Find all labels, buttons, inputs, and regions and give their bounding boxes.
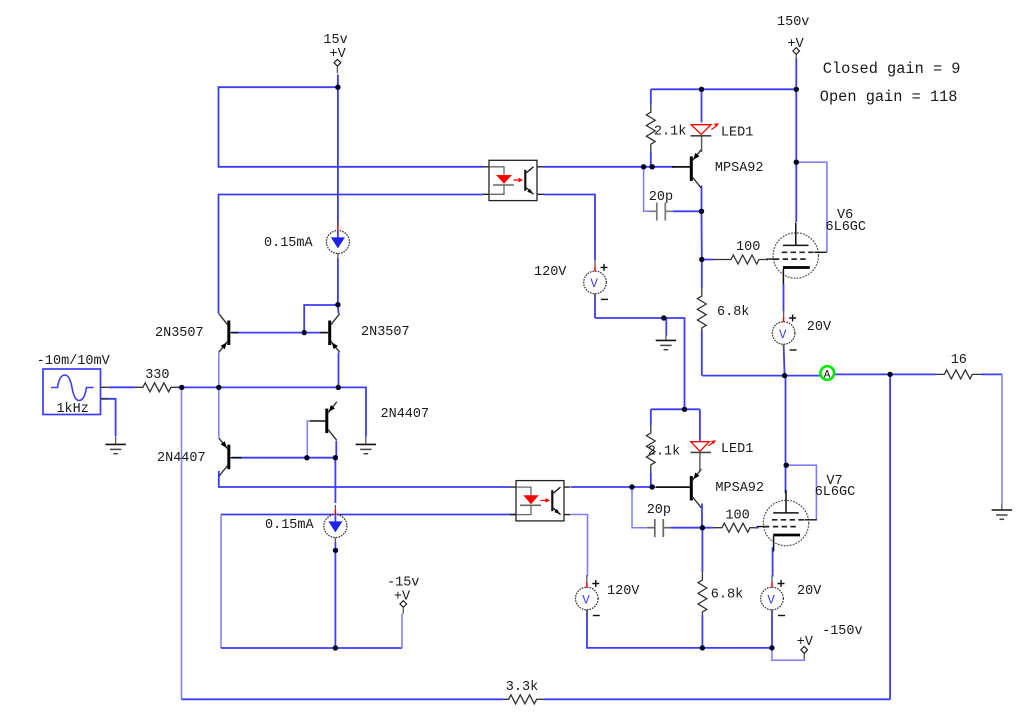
svg-text:+V: +V — [330, 47, 347, 62]
svg-text:100: 100 — [725, 509, 749, 524]
wire -15v left side — [220, 515, 222, 649]
wire Q1 emitter to feedback rail — [218, 353, 220, 388]
resistor R6.8k upper — [697, 289, 749, 331]
svg-text:+V: +V — [394, 590, 411, 605]
wire -150v supply hook — [772, 648, 804, 660]
resistor R330 — [135, 368, 178, 392]
wire Q4 emitter from rail — [218, 387, 220, 437]
svg-text:+V: +V — [788, 37, 805, 52]
wire Q3 collector down — [335, 441, 337, 458]
wire -15v rect — [221, 514, 516, 516]
capacitor C1 20p upper — [649, 190, 673, 220]
resistor R3.3k feedback — [503, 680, 543, 704]
voltmeter M4 20V lower — [761, 575, 785, 617]
svg-text:+V: +V — [797, 635, 814, 650]
wire R16 ground drop — [1001, 374, 1003, 505]
wire bottom feedback rail left — [182, 698, 504, 700]
resistor R100 lower — [713, 509, 755, 533]
svg-text:15v: 15v — [323, 33, 347, 48]
svg-text:LED1: LED1 — [721, 125, 753, 140]
optocoupler U2 lower — [510, 481, 571, 521]
svg-text:120V: 120V — [607, 584, 640, 599]
wire R2.1k upper leads — [650, 89, 652, 104]
svg-text:2.1k: 2.1k — [648, 444, 680, 459]
wire C2 branch — [632, 487, 647, 528]
svg-text:6L6GC: 6L6GC — [826, 220, 867, 235]
svg-text:-10m/10mV: -10m/10mV — [37, 354, 111, 369]
voltage supply +V 15v — [323, 33, 347, 73]
current source I1 0.15mA upper — [326, 221, 349, 259]
wire C2 to junction — [671, 527, 702, 529]
voltmeter M3 120V lower — [576, 575, 600, 617]
transistor Q5 MPSA92 upper — [691, 150, 701, 189]
wire opto U1 collector to base rail — [544, 166, 675, 168]
LED D2 lower LED1 — [691, 440, 754, 457]
voltage supply +V 150v — [777, 15, 809, 59]
wire M2 to node A rail — [784, 345, 785, 376]
resistor R2.1k upper — [646, 105, 686, 153]
transistor Q4 2N4407 lower-left — [219, 438, 229, 477]
ground (mid 120V meter) — [656, 318, 676, 350]
transistor Q2 base stub — [320, 332, 328, 334]
wire source ground lead — [101, 399, 116, 437]
wire V7 cathode to M4 — [772, 547, 774, 576]
wire bottom feedback rail right — [543, 698, 890, 700]
svg-text:20p: 20p — [647, 503, 671, 518]
voltage supply +V -150v — [797, 624, 863, 659]
wire 150v down to V6 plate — [795, 58, 797, 222]
wire LED1 to Q5 emitter — [701, 137, 703, 153]
transistor Q2 2N3507 right — [330, 314, 340, 353]
wire opto U1 emitter to M1 — [544, 195, 596, 261]
capacitor C2 20p lower — [647, 503, 671, 537]
wire A rail to V7 plate — [785, 376, 787, 494]
wire Q2 emitter down — [338, 353, 340, 388]
node A badge — [821, 366, 835, 381]
wire -15v bottom rail — [221, 647, 402, 649]
svg-text:V: V — [590, 277, 598, 291]
wire R2.1k lower leads — [650, 409, 652, 425]
wire junction to R100 lower — [702, 527, 713, 529]
svg-text:V: V — [779, 328, 787, 342]
svg-text:-150v: -150v — [822, 624, 863, 639]
svg-text:2N3507: 2N3507 — [155, 326, 204, 341]
ground (input source) — [105, 437, 125, 454]
voltage supply +V -15v — [387, 576, 419, 614]
wire Q4 collector to opto U2 anode — [219, 471, 510, 487]
LED D1 upper LED1 — [691, 123, 754, 140]
wire M4 bottom — [771, 610, 773, 648]
wire R16 to ground — [981, 373, 1002, 375]
wire Q6 collector down — [701, 504, 703, 528]
wire opto U1 cathode to Q1 collector — [219, 195, 484, 314]
wire node A to R16 — [835, 373, 937, 375]
svg-text:0.15mA: 0.15mA — [265, 518, 315, 533]
wire M1 bottom — [594, 294, 596, 318]
wire R330 to junction — [178, 386, 183, 388]
wire opto U2 collector to base rail — [571, 486, 655, 488]
wire 150v top rail — [651, 88, 797, 90]
wire Q5 collector down — [701, 186, 703, 212]
wire CS1 to Q2 collector — [337, 259, 340, 314]
svg-text:3.3k: 3.3k — [506, 680, 538, 695]
svg-text:150v: 150v — [777, 15, 809, 30]
wire lower base rail — [232, 457, 335, 459]
wire Q3 base L — [307, 421, 310, 458]
wire V7 screen tie — [786, 465, 816, 520]
wire R6.8k lower leads — [701, 528, 703, 572]
wire R100 to V6 grid — [767, 259, 768, 261]
wire CS2 bottom — [334, 543, 336, 649]
svg-text:330: 330 — [145, 368, 169, 383]
wire C1 branch — [644, 167, 649, 212]
svg-text:-15v: -15v — [387, 576, 419, 591]
wire base rail Q1-Q2 — [232, 332, 327, 334]
svg-text:Closed gain = 9: Closed gain = 9 — [823, 60, 961, 78]
wire input mid rail — [182, 387, 367, 436]
wire V6 cathode to M2 — [783, 284, 785, 311]
svg-text:MPSA92: MPSA92 — [715, 481, 764, 496]
svg-text:2N3507: 2N3507 — [361, 325, 410, 340]
wire feedback left vertical — [181, 387, 183, 699]
transistor Q5 base wire — [672, 166, 690, 168]
vacuum tube V7 6L6GC — [757, 490, 817, 552]
wire R6.8k upper leads — [701, 260, 703, 289]
optocoupler U1 upper — [483, 160, 544, 200]
wire ground drop to lower rail — [595, 318, 685, 409]
wire R100 lower to V7 grid — [755, 527, 758, 529]
wire -15v supply stub — [401, 614, 403, 649]
current source I2 0.15mA lower — [324, 505, 347, 543]
svg-text:A: A — [824, 369, 831, 381]
svg-text:LED1: LED1 — [721, 442, 753, 457]
transistor Q6 base wire — [656, 486, 691, 488]
svg-text:120V: 120V — [534, 265, 567, 280]
wire 15v junction to left — [219, 87, 484, 167]
wire V6 screen tie — [796, 162, 827, 252]
wire base tie to current source node — [304, 305, 338, 333]
wire junction to R100 node — [702, 211, 714, 259]
wire LED2 top lead — [699, 409, 701, 441]
svg-text:0.15mA: 0.15mA — [264, 236, 314, 251]
wire lower base rail to CS2 — [334, 458, 336, 503]
transistor Q3 base stub — [310, 420, 325, 422]
wire lower top rail — [651, 408, 700, 410]
wire opto U2 emitter to meter M3 — [571, 515, 588, 577]
svg-text:Open gain = 118: Open gain = 118 — [820, 88, 958, 106]
svg-text:6.8k: 6.8k — [717, 305, 749, 320]
svg-text:1kHz: 1kHz — [56, 402, 88, 417]
transistor Q6 MPSA92 lower — [691, 469, 701, 508]
vacuum tube V6 6L6GC — [767, 223, 827, 285]
svg-text:V: V — [582, 593, 590, 607]
wire output down right side — [889, 374, 891, 699]
svg-text:2N4407: 2N4407 — [381, 407, 430, 422]
wire 15v rail vertical — [337, 75, 339, 227]
resistor R16 — [936, 353, 981, 379]
resistor R6.8k lower — [698, 572, 743, 615]
transistor Q3 2N4407 mid — [327, 402, 337, 441]
svg-text:2N4407: 2N4407 — [157, 451, 206, 466]
voltmeter M2 20V upper — [772, 310, 796, 352]
sine source V1 -10m/10mV 1kHz — [37, 354, 111, 417]
svg-text:MPSA92: MPSA92 — [715, 161, 764, 176]
svg-text:16: 16 — [951, 353, 967, 368]
transistor Q4 base stub — [230, 457, 242, 459]
svg-text:V: V — [767, 593, 775, 607]
wire LED1 top lead — [701, 89, 703, 122]
transistor Q1 base stub — [230, 332, 238, 334]
svg-text:20p: 20p — [649, 190, 673, 205]
svg-text:20V: 20V — [797, 584, 822, 599]
svg-text:100: 100 — [736, 240, 760, 255]
voltmeter M1 120V upper — [584, 259, 608, 301]
wire LED2 to Q6 emitter — [699, 453, 701, 471]
wire C1 to junction — [673, 210, 702, 212]
wire M3 to -150v rail — [587, 610, 772, 648]
resistor R2.1k lower — [646, 425, 680, 473]
ground (diff pair) — [356, 437, 376, 454]
ground (output R16) — [992, 505, 1012, 520]
svg-text:20V: 20V — [807, 320, 832, 335]
svg-text:2.1k: 2.1k — [654, 124, 686, 139]
wire node A rail — [702, 375, 820, 377]
transistor Q1 2N3507 left — [219, 314, 229, 353]
resistor R100 upper — [713, 240, 767, 264]
svg-text:6L6GC: 6L6GC — [815, 485, 856, 500]
wire source to resistor R330 — [109, 386, 135, 388]
svg-text:6.8k: 6.8k — [711, 587, 743, 602]
